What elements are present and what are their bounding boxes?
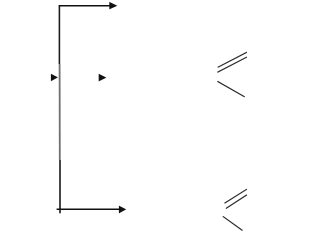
double bond lower line (bottom structure) (226, 195, 247, 209)
single bond (bottom structure) (223, 216, 243, 230)
arrowhead at vertical line (51, 74, 58, 82)
double bond lower line (top structure) (217, 57, 247, 72)
bottom arrow shaft (57, 208, 120, 210)
double bond upper line (top structure) (218, 52, 247, 67)
double bond upper line (bottom structure) (225, 189, 248, 203)
arrowhead standalone (99, 74, 107, 82)
bottom arrow head (119, 206, 126, 214)
wire vertical line (58, 6, 61, 214)
top arrow head (109, 2, 117, 9)
top arrow shaft (59, 5, 111, 7)
single bond (top structure) (217, 81, 244, 97)
